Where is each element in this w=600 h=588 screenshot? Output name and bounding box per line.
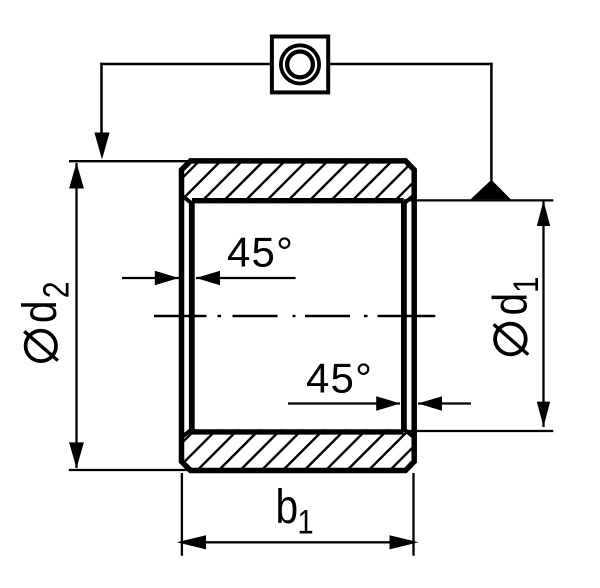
svg-text:d: d	[483, 293, 537, 316]
svg-text:b: b	[276, 480, 299, 534]
svg-text:2: 2	[37, 281, 77, 298]
svg-text:d: d	[13, 300, 67, 323]
45 deg lower dimension line right segment	[418, 402, 471, 404]
leader line left vertical	[100, 63, 103, 140]
arrow b1 right	[390, 535, 419, 549]
dimension line d2	[75, 163, 77, 468]
centerline	[154, 315, 435, 317]
concentricity symbol frame	[272, 37, 328, 93]
label d1 diameter symbol	[495, 324, 526, 355]
svg-text:45°: 45°	[306, 355, 373, 402]
bore top edge	[192, 198, 404, 203]
arrow d2 bottom	[69, 442, 84, 468]
dimension line b1	[182, 541, 414, 543]
45 deg lower arrow pointing left	[418, 396, 442, 411]
concentricity symbol inner circle	[287, 52, 313, 78]
svg-text:1: 1	[298, 502, 314, 541]
45 deg upper dimension line right segment	[196, 277, 296, 279]
45 deg upper dimension line left segment	[122, 277, 179, 279]
arrow d1 top	[537, 201, 550, 226]
datum triangle	[471, 180, 511, 200]
bore chamfer diag bottom-left	[182, 429, 192, 437]
extension line bottom left	[69, 469, 188, 471]
45 deg upper arrow pointing right	[155, 271, 179, 286]
45 deg lower dimension line left segment	[288, 402, 400, 404]
arrow d2 top	[69, 163, 84, 189]
part outer outline	[182, 161, 415, 471]
leader line right vertical	[490, 63, 493, 181]
extension line b1 left	[181, 473, 183, 556]
chamfer edge line right	[401, 203, 407, 431]
45 deg lower arrow pointing right	[376, 396, 400, 411]
svg-text:45°: 45°	[227, 229, 294, 276]
extension line right bottom	[404, 430, 553, 432]
bore chamfer diag top-left	[182, 195, 192, 203]
leader arrow down	[94, 133, 109, 160]
bore bottom edge	[192, 429, 404, 434]
dimension line d1	[542, 201, 544, 427]
extension line b1 right	[412, 473, 414, 556]
chamfer edge line left	[189, 203, 195, 431]
leader line right horizontal	[329, 63, 493, 66]
svg-text:1: 1	[506, 276, 545, 292]
hatch bottom band	[150, 411, 449, 475]
bore chamfer diag top-right	[404, 195, 414, 203]
45 deg upper arrow pointing left	[196, 271, 220, 286]
extension line top left	[69, 160, 188, 162]
extension line right top	[404, 199, 553, 201]
arrow b1 left	[177, 535, 206, 549]
leader line left horizontal	[100, 63, 271, 66]
bore chamfer diag bottom-right	[404, 429, 414, 437]
label d2 diameter symbol	[26, 331, 56, 361]
concentricity symbol outer circle	[281, 45, 319, 83]
arrow d1 bottom	[537, 402, 550, 427]
hatch top band	[138, 158, 437, 222]
